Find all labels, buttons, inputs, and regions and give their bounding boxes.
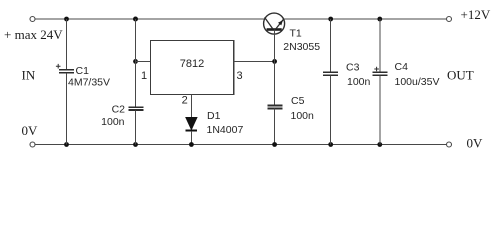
capacitor C5 xyxy=(267,61,282,144)
node pin1 branch junction xyxy=(133,59,138,64)
node C1 bottom junction xyxy=(64,142,69,147)
svg-text:T1: T1 xyxy=(290,27,302,39)
node C4 bottom junction xyxy=(377,142,382,147)
node C1 top junction xyxy=(64,17,69,22)
terminal output 0V (bottom right) xyxy=(447,142,452,147)
svg-text:100u/35V: 100u/35V xyxy=(395,76,440,88)
svg-text:+12V: +12V xyxy=(461,7,491,22)
svg-text:0V: 0V xyxy=(22,123,39,138)
svg-text:100n: 100n xyxy=(101,116,125,128)
capacitor C2 xyxy=(128,19,143,145)
svg-text:100n: 100n xyxy=(291,110,315,122)
svg-text:OUT: OUT xyxy=(447,68,474,83)
svg-text:C2: C2 xyxy=(112,103,126,115)
node C5 bottom junction xyxy=(272,142,277,147)
svg-text:C1: C1 xyxy=(76,65,90,77)
op-amp/regulator U1 7812 box xyxy=(150,40,233,94)
diode D1 xyxy=(186,117,198,144)
wire top rail right segment (T1 emitter to +12V) xyxy=(284,18,446,20)
wire pin 3 xyxy=(234,60,275,62)
node C3 top junction xyxy=(328,17,333,22)
wire pin 1 xyxy=(136,60,151,62)
svg-text:2: 2 xyxy=(182,95,188,107)
node C3 bottom junction xyxy=(328,142,333,147)
node C2 top junction xyxy=(133,17,138,22)
svg-text:+ max 24V: + max 24V xyxy=(4,27,63,42)
svg-text:100n: 100n xyxy=(347,76,371,88)
transistor Q1 T1 2N3055 xyxy=(264,13,285,61)
svg-text:C3: C3 xyxy=(346,61,360,73)
capacitor C1 xyxy=(56,19,74,145)
terminal input + (top left) xyxy=(30,17,35,22)
wire bottom rail 0V xyxy=(35,144,446,146)
svg-text:7812: 7812 xyxy=(180,58,204,70)
node C4 top junction xyxy=(377,17,382,22)
svg-text:1N4007: 1N4007 xyxy=(207,124,244,136)
node C2 bottom junction xyxy=(133,142,138,147)
capacitor C3 xyxy=(323,19,338,145)
node T1 base / C5 junction xyxy=(272,59,277,64)
terminal input 0V (bottom left) xyxy=(30,142,35,147)
svg-text:D1: D1 xyxy=(207,110,221,122)
svg-text:1: 1 xyxy=(141,70,147,82)
svg-text:IN: IN xyxy=(22,68,36,83)
node D1 bottom junction xyxy=(189,142,194,147)
capacitor C4 xyxy=(372,19,387,145)
terminal output +12V (top right) xyxy=(447,17,452,22)
svg-text:C4: C4 xyxy=(395,61,409,73)
svg-text:0V: 0V xyxy=(467,136,484,151)
svg-text:4M7/35V: 4M7/35V xyxy=(68,77,110,89)
svg-text:C5: C5 xyxy=(291,95,305,107)
svg-text:2N3055: 2N3055 xyxy=(283,41,320,53)
wire top rail left segment (input to T1 collector) xyxy=(35,18,264,20)
wire pin 2 xyxy=(190,94,192,117)
svg-text:3: 3 xyxy=(236,70,242,82)
